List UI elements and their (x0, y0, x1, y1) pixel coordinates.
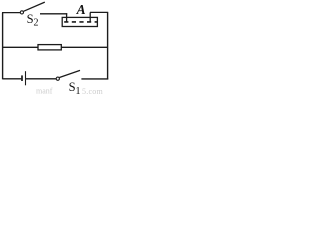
wire bottom-left (3, 78, 22, 80)
switch S2 hinge circle (20, 11, 23, 14)
wire top-right segment (90, 11, 108, 13)
svg-text:S1: S1 (69, 80, 81, 95)
wire left rail (2, 13, 4, 80)
switch S1 blade (59, 70, 80, 77)
wire right rail (107, 12, 109, 79)
liquid level dashed line (64, 21, 97, 23)
switch S2 blade (24, 2, 45, 11)
svg-text:manf: manf (36, 87, 53, 96)
svg-text:5.com: 5.com (82, 87, 104, 95)
wire middle left (3, 46, 39, 48)
svg-text:S2: S2 (27, 12, 39, 29)
wire left electrode drop (66, 13, 68, 21)
wire top-left segment (2, 12, 20, 14)
svg-text:A: A (76, 2, 86, 17)
switch S1 hinge circle (56, 77, 59, 80)
right electrode riser (89, 12, 91, 21)
wire battery to S1 (26, 78, 56, 80)
battery negative plate (short) (21, 75, 23, 81)
battery positive plate (long) (25, 71, 27, 85)
wire S2 right lead (40, 13, 67, 15)
electrolytic tank A outline (62, 17, 97, 26)
wire bottom-right (81, 78, 108, 80)
resistor R (38, 45, 61, 50)
wire middle right (61, 46, 107, 48)
